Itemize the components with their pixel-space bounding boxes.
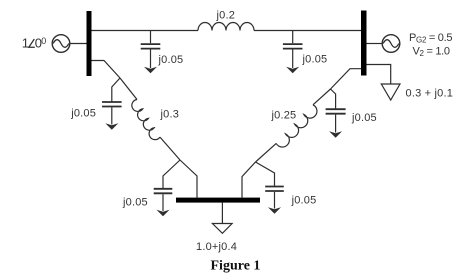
label 1 angle 0 deg: [22, 36, 46, 51]
generator G2 circle: [382, 35, 400, 53]
capacitor C23b plates j0.05: [265, 187, 284, 192]
wire inductor j0.3 to node J2: [160, 137, 180, 160]
label PG2 = 0.5: [409, 32, 452, 58]
wire node J3 to capacitor C23b: [256, 162, 275, 186]
wire bus2 to load arrow: [367, 65, 391, 85]
svg-text:j0.05: j0.05: [302, 53, 328, 65]
wire bus1 to node J1 (start of line 1-3): [92, 61, 121, 79]
capacitor C12a stem: [150, 31, 152, 44]
ground arrow of C13b: [157, 210, 170, 216]
wire bus1 to line inductor (top line left segment): [92, 30, 199, 32]
wire inductor j0.25 to node J3: [256, 143, 277, 162]
capacitor C12b stem: [292, 31, 294, 44]
wire bus3 to load arrow: [221, 203, 223, 224]
ground arrow of C12b: [286, 67, 299, 73]
svg-text:j0.25: j0.25: [271, 109, 297, 121]
bus 3 (bottom horizontal busbar): [176, 198, 260, 203]
bus 1 (left vertical busbar): [87, 11, 92, 76]
svg-text:1: 1: [22, 36, 29, 51]
ground arrow of C23b: [268, 207, 281, 213]
capacitor C13a plates j0.05: [102, 102, 122, 107]
svg-text:0.3 + j0.1: 0.3 + j0.1: [406, 88, 454, 100]
svg-text:Figure 1: Figure 1: [211, 259, 261, 274]
wire bus2 to G2: [367, 43, 383, 45]
svg-text:j0.05: j0.05: [122, 197, 148, 209]
svg-text:j0.2: j0.2: [216, 9, 236, 21]
wire node J4 to capacitor C23a: [331, 89, 336, 109]
wire node J1 to capacitor C13a: [112, 78, 120, 102]
capacitor C13a lower stem: [111, 107, 113, 124]
svg-text:j0.05: j0.05: [291, 194, 317, 206]
capacitor C12a lower stem: [150, 50, 152, 69]
svg-text:j0.05: j0.05: [351, 112, 377, 124]
svg-text:0: 0: [41, 36, 46, 46]
load arrow at bus 2 (open triangle): [381, 84, 400, 100]
svg-text:PG2 = 0.5: PG2 = 0.5: [409, 32, 452, 45]
capacitor C13b plates j0.05: [154, 189, 173, 194]
wire node J2 to bus 3: [180, 160, 197, 198]
wire G1 to bus 1: [70, 43, 87, 45]
wire node J3 to bus 3: [242, 162, 256, 198]
inductor j0.25 (line 2-3 series reactance): [276, 105, 317, 147]
svg-text:j0.3: j0.3: [160, 109, 180, 121]
capacitor C12a plates j0.05: [141, 44, 161, 49]
generator G1 sine wave: [53, 40, 69, 48]
capacitor C12b lower stem: [292, 50, 294, 69]
wire J4 to inductor j0.25: [313, 89, 331, 105]
wire inductor to bus2 (top line right segment): [254, 30, 361, 32]
generator G1 circle: [52, 35, 70, 53]
capacitor C12b plates j0.05: [283, 44, 303, 49]
svg-text:j0.05: j0.05: [158, 54, 184, 66]
ground arrow of C13a: [105, 123, 118, 129]
wire bus2 to node J4 (start of line 2-3): [331, 69, 362, 89]
wire node J2 to capacitor C13b: [163, 160, 180, 188]
ground arrow of C23a: [329, 131, 342, 137]
ground arrow of C12a: [144, 67, 157, 73]
wire J1 to inductor j0.3: [120, 78, 137, 100]
svg-text:j0.05: j0.05: [70, 108, 96, 120]
bus 2 (right vertical busbar): [361, 11, 367, 76]
capacitor C23a lower stem: [335, 115, 337, 133]
generator G2 sine wave: [383, 40, 399, 48]
inductor j0.2 (line 1-2 series reactance): [198, 23, 254, 31]
capacitor C23a plates j0.05: [326, 109, 346, 114]
inductor j0.3 (line 1-3 series reactance): [132, 100, 160, 140]
svg-text:1.0+j0.4: 1.0+j0.4: [196, 241, 237, 253]
capacitor C23b lower stem: [274, 192, 276, 209]
svg-text:V2 = 1.0: V2 = 1.0: [413, 46, 450, 59]
capacitor C13b lower stem: [162, 194, 164, 211]
angle symbol of 1&#8736;0: [29, 39, 35, 47]
load arrow at bus 3 (open triangle): [212, 224, 232, 234]
